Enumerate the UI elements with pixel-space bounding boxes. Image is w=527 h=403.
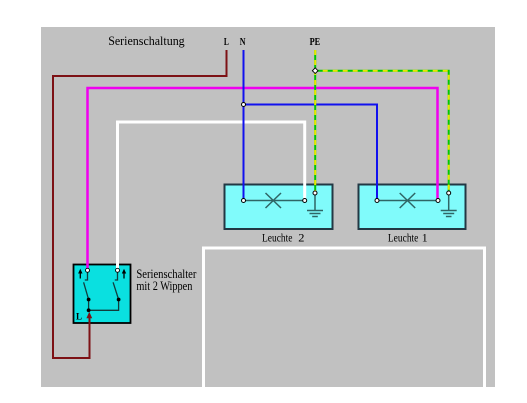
svg-text:Leuchte: Leuchte [262,231,293,245]
svg-text:L: L [76,312,82,322]
svg-text:PE: PE [310,36,321,48]
svg-text:1: 1 [422,231,428,245]
svg-text:2: 2 [298,231,304,245]
svg-text:Leuchte: Leuchte [388,231,419,245]
svg-text:mit 2 Wippen: mit 2 Wippen [136,279,192,293]
svg-text:Serienschaltung: Serienschaltung [108,34,185,48]
svg-text:L: L [224,36,229,48]
svg-text:N: N [240,36,246,48]
